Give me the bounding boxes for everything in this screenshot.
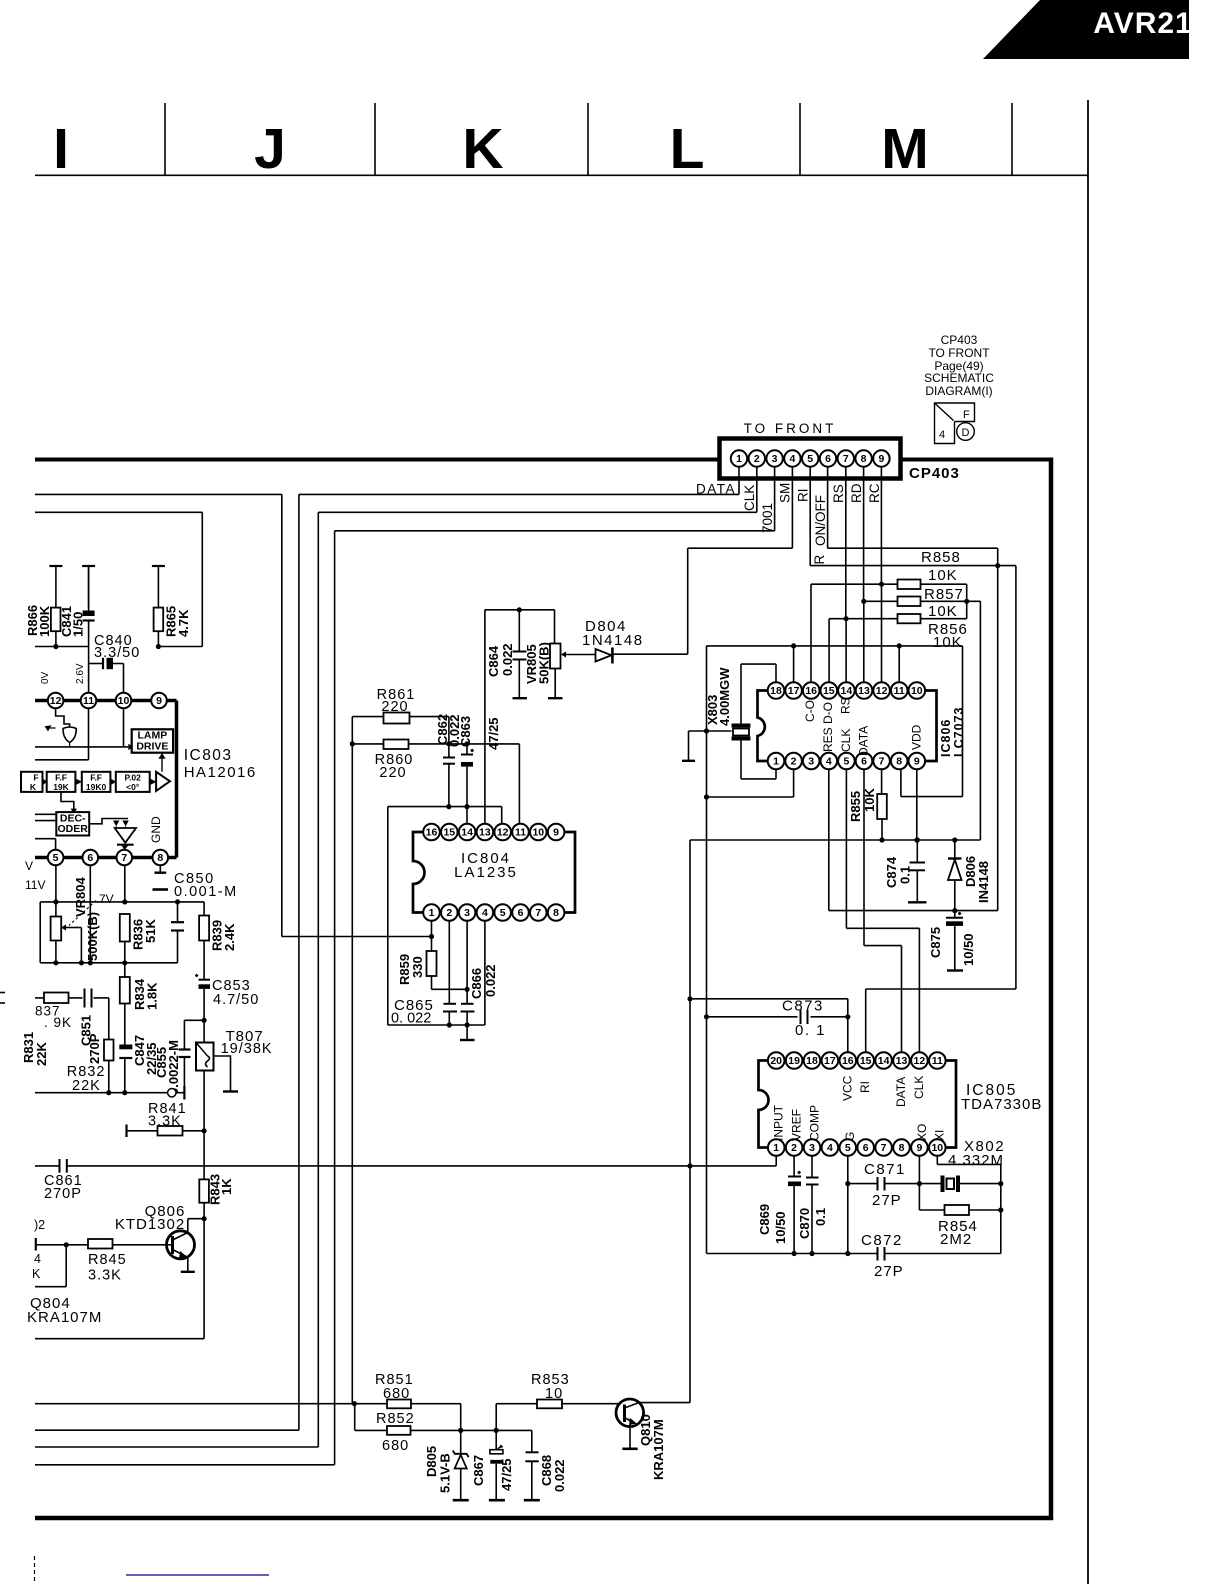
schematic border right edge <box>1049 458 1054 1521</box>
svg-text:10: 10 <box>532 827 544 839</box>
CP403 pin 5 <box>802 450 818 466</box>
wire C855 branch <box>184 1019 204 1021</box>
svg-text:LC7073: LC7073 <box>952 707 966 757</box>
wire VDD bus <box>690 839 980 841</box>
wire G down <box>847 1156 849 1254</box>
wire 7001 from pin 3 <box>774 467 776 531</box>
svg-text:13: 13 <box>896 1055 908 1067</box>
svg-text:C867: C867 <box>471 1455 486 1486</box>
svg-text:20: 20 <box>770 1055 782 1067</box>
svg-text:6: 6 <box>825 453 831 465</box>
bus rail DATA <box>298 494 300 1430</box>
resistor R857 <box>898 597 921 607</box>
IC804 pin 4 <box>477 904 494 921</box>
svg-text:RS: RS <box>839 697 853 714</box>
IC803 pin12 internal link <box>56 708 70 728</box>
capacitor C871 <box>848 1183 877 1185</box>
svg-text:KRA107M: KRA107M <box>651 1419 666 1480</box>
wire RC from pin 9 <box>880 467 882 585</box>
capacitor C874 <box>910 862 926 864</box>
svg-text:CLK: CLK <box>912 1076 926 1099</box>
column tick 2 <box>374 103 376 175</box>
IC804 pin 6 <box>512 904 529 921</box>
resonator X803 <box>732 724 751 728</box>
svg-text:27P: 27P <box>872 1192 902 1209</box>
svg-text:2.6V: 2.6V <box>75 663 86 684</box>
capacitor C870 <box>806 1177 819 1179</box>
svg-text:7V: 7V <box>99 892 114 906</box>
svg-text:C873: C873 <box>782 998 824 1015</box>
svg-text:7: 7 <box>121 852 127 864</box>
svg-text:6: 6 <box>87 852 93 864</box>
svg-text:4.7K: 4.7K <box>176 609 191 637</box>
svg-text:F.F: F.F <box>55 773 67 783</box>
IC803 pin 8 <box>153 850 169 866</box>
wire supply junction line A <box>35 646 89 648</box>
wire IC806 pin6 DATA out <box>863 769 865 945</box>
IC805 pin 17 <box>822 1052 839 1069</box>
IC805 body outline <box>759 1061 957 1148</box>
resistor R853 <box>537 1400 562 1409</box>
block DEC-ODER <box>56 812 89 835</box>
svg-text:C875: C875 <box>928 927 943 958</box>
inter-block arrow 1 <box>43 779 48 785</box>
svg-text:GND: GND <box>149 816 163 843</box>
svg-text:R855: R855 <box>848 791 863 822</box>
transformer T807 <box>203 1020 205 1042</box>
svg-text:XO: XO <box>915 1124 929 1141</box>
svg-text:2: 2 <box>791 1142 797 1154</box>
svg-text:K: K <box>30 782 37 792</box>
IC805 pin 3 <box>804 1139 821 1156</box>
IC803 pin 10 <box>116 693 132 709</box>
IC806 pin 7 <box>873 753 890 770</box>
resistor R836 <box>120 914 130 942</box>
svg-text:1/50: 1/50 <box>71 612 86 637</box>
svg-text:12: 12 <box>497 827 509 839</box>
svg-text:19/38K: 19/38K <box>221 1041 273 1057</box>
svg-text:3.3K: 3.3K <box>148 1114 182 1130</box>
svg-text:330: 330 <box>410 956 425 978</box>
svg-text:220: 220 <box>379 765 406 781</box>
IC806 pin 5 <box>838 753 855 770</box>
IC806 pin 12 <box>873 682 890 699</box>
IC805 pin 4 <box>822 1139 839 1156</box>
block F.F 19K <box>47 772 76 792</box>
svg-text:2: 2 <box>754 453 760 465</box>
svg-text:11: 11 <box>932 1055 943 1067</box>
svg-text:F: F <box>963 409 970 421</box>
diode D806 <box>954 840 956 858</box>
svg-text:22K: 22K <box>72 1078 101 1094</box>
svg-text:IN4148: IN4148 <box>976 861 991 903</box>
column tick 5 <box>1011 103 1013 175</box>
wire left segment A <box>35 493 282 495</box>
IC805 pin 18 <box>804 1052 821 1069</box>
IC806 body outline <box>758 691 937 762</box>
capacitor C864 <box>513 651 527 653</box>
svg-text:14: 14 <box>878 1055 890 1067</box>
svg-text:0.1: 0.1 <box>813 1208 828 1226</box>
svg-text:R857: R857 <box>924 586 964 603</box>
wire crystal right loop <box>962 646 964 797</box>
svg-text:1N4148: 1N4148 <box>582 632 644 649</box>
svg-text:4: 4 <box>826 756 832 768</box>
svg-text:K: K <box>32 1267 41 1281</box>
resistor R856 <box>898 614 921 623</box>
svg-text:SCHEMATIC: SCHEMATIC <box>924 371 994 385</box>
svg-text:11: 11 <box>894 685 905 697</box>
svg-text:CP403: CP403 <box>909 465 960 482</box>
svg-text:10: 10 <box>931 1142 943 1154</box>
svg-text:7001: 7001 <box>760 503 775 533</box>
capacitor C853 <box>199 979 211 981</box>
svg-text:C863: C863 <box>458 716 473 747</box>
svg-text:1: 1 <box>736 453 742 465</box>
IC805 pin 15 <box>857 1052 874 1069</box>
svg-text:12: 12 <box>876 685 888 697</box>
svg-text:6: 6 <box>518 907 524 919</box>
IC806 pin 9 <box>909 753 926 770</box>
IC803 pin 12 <box>48 693 64 709</box>
IC805 pin 8 <box>893 1139 910 1156</box>
svg-text:VR804: VR804 <box>73 876 88 917</box>
CP403 pin 8 <box>855 450 871 466</box>
svg-text:10K: 10K <box>928 567 958 584</box>
svg-text:11: 11 <box>515 827 526 839</box>
wire IC803 pin11 down <box>88 708 90 760</box>
capacitor C865 <box>444 1003 457 1005</box>
IC803 pin 7 <box>117 850 133 866</box>
CP403 pin 7 <box>838 450 854 466</box>
IC806 pin 6 <box>856 753 873 770</box>
block P.02 <box>116 772 150 792</box>
resistor R845 <box>88 1239 113 1249</box>
svg-text:I: I <box>53 117 69 181</box>
column tick 4 <box>799 103 801 175</box>
svg-text:13: 13 <box>858 685 870 697</box>
svg-text:27P: 27P <box>874 1263 904 1280</box>
IC803 pin 9 <box>151 693 167 709</box>
svg-text:5.1V-B: 5.1V-B <box>438 1453 453 1493</box>
capacitor C850 <box>171 921 184 923</box>
svg-text:2M2: 2M2 <box>940 1231 972 1248</box>
T807 secondary ground <box>214 1056 231 1091</box>
rail stub 2 <box>82 565 95 567</box>
IC804 pin 10 <box>530 824 547 841</box>
svg-text:3.3K: 3.3K <box>88 1268 122 1284</box>
svg-text:V: V <box>25 859 33 873</box>
IC805 pin 7 <box>875 1139 892 1156</box>
svg-text:15: 15 <box>443 827 455 839</box>
resistor R851 <box>387 1400 411 1409</box>
svg-text:4: 4 <box>34 1252 41 1266</box>
svg-text:IC803: IC803 <box>184 747 233 764</box>
arrow into LAMP DRIVE <box>161 758 163 772</box>
IC805 pin 1 <box>768 1139 785 1156</box>
svg-text:COMP: COMP <box>807 1105 821 1141</box>
resistor R866 100K <box>51 608 61 632</box>
wire decoder input 2 <box>35 820 56 822</box>
svg-text:680: 680 <box>383 1386 410 1402</box>
svg-text:9: 9 <box>914 756 920 768</box>
wire XTAL filter top <box>485 609 555 611</box>
wire Q806 collector bus <box>35 1338 204 1340</box>
IC805 pin 14 <box>875 1052 892 1069</box>
svg-text:47/25: 47/25 <box>499 1458 514 1491</box>
IC806 pin 13 <box>856 682 873 699</box>
left edge dashed mark <box>34 1556 36 1584</box>
IC803 gate shape <box>63 727 76 743</box>
svg-text:5: 5 <box>500 907 506 919</box>
wire IC803 pin10 down <box>123 708 125 747</box>
IC804 pin 1 <box>423 904 440 921</box>
IC803 pin 11 <box>81 693 97 709</box>
svg-text:CLK: CLK <box>742 485 757 511</box>
IC803 pin 5 <box>48 850 64 866</box>
svg-text:16: 16 <box>426 827 438 839</box>
svg-text:8: 8 <box>157 852 163 864</box>
IC803 amp triangle <box>156 772 170 791</box>
svg-text:9: 9 <box>916 1142 922 1154</box>
schematic border top right segment <box>901 458 1052 462</box>
svg-text:0.1: 0.1 <box>898 866 913 884</box>
IC804 pin 2 <box>441 904 458 921</box>
IC803 body outline <box>35 699 177 703</box>
IC804 body outline <box>413 832 575 913</box>
CP403 pin 6 <box>820 450 836 466</box>
potentiometer VR805 <box>550 644 561 669</box>
svg-text:F: F <box>33 773 38 783</box>
svg-text:INPUT: INPUT <box>772 1104 786 1141</box>
svg-text:6: 6 <box>861 756 867 768</box>
wire XO <box>918 1156 920 1210</box>
svg-text:K: K <box>462 117 503 181</box>
IC806 pin 14 <box>838 682 855 699</box>
svg-text:4: 4 <box>789 453 795 465</box>
capacitor C872 <box>877 1247 879 1261</box>
IC803 diode cluster <box>113 821 119 827</box>
svg-text:7: 7 <box>843 453 849 465</box>
svg-text:4.332M: 4.332M <box>948 1152 1004 1169</box>
svg-text:0. 1: 0. 1 <box>795 1022 826 1039</box>
IC806 pin 2 <box>785 753 802 770</box>
svg-text:KRA107M: KRA107M <box>27 1309 102 1326</box>
wire IC804 pin12 link <box>388 806 502 808</box>
svg-text:9: 9 <box>156 695 162 707</box>
resistor R858 <box>898 580 921 590</box>
CP403 pin 4 <box>784 450 800 466</box>
svg-text:1K: 1K <box>219 1178 234 1195</box>
svg-text:HA12016: HA12016 <box>184 764 257 781</box>
svg-text:100K: 100K <box>37 605 52 637</box>
svg-text:C870: C870 <box>797 1208 812 1239</box>
page header column ruler line <box>35 174 1088 176</box>
resistor R861 <box>384 713 410 724</box>
capacitor C841 <box>83 611 95 617</box>
svg-text:G: G <box>843 1132 857 1141</box>
svg-text:)2: )2 <box>34 1218 45 1232</box>
IC806 pin 15 <box>821 682 838 699</box>
transistor Q810 <box>616 1399 644 1427</box>
zener D805 <box>460 1430 462 1453</box>
svg-text:2: 2 <box>791 756 797 768</box>
svg-text:C866: C866 <box>469 968 484 999</box>
resistor R860 <box>384 740 409 750</box>
IC806 pin 11 <box>891 682 908 699</box>
svg-text:VREF: VREF <box>790 1109 804 1141</box>
svg-text:SM: SM <box>778 483 793 503</box>
svg-text:C872: C872 <box>861 1232 903 1249</box>
svg-text:19: 19 <box>788 1055 800 1067</box>
svg-text:10: 10 <box>911 685 923 697</box>
svg-text:270P: 270P <box>87 1033 102 1064</box>
svg-text:8: 8 <box>861 453 867 465</box>
column tick 1 <box>164 103 166 175</box>
svg-text:4: 4 <box>939 429 945 441</box>
IC805 pin 5 <box>840 1139 857 1156</box>
svg-text:22K: 22K <box>34 1042 49 1066</box>
rail stub 3 <box>152 565 165 567</box>
svg-text:6: 6 <box>863 1142 869 1154</box>
capacitor C868 <box>531 1430 533 1452</box>
svg-text:0.001-M: 0.001-M <box>174 884 238 900</box>
CP403 pin 9 <box>873 450 889 466</box>
IC806 pin 16 <box>803 682 820 699</box>
diode D804 <box>596 649 612 662</box>
svg-text:R858: R858 <box>921 549 961 566</box>
resistor R841 <box>158 1126 183 1136</box>
svg-text:M: M <box>881 117 928 181</box>
svg-text:3: 3 <box>464 907 470 919</box>
bus rail SM-R860 <box>351 717 353 1404</box>
IC806 pin 3 <box>803 753 820 770</box>
svg-text:15: 15 <box>860 1055 872 1067</box>
IC804 pin 8 <box>548 904 565 921</box>
IC806 pin 8 <box>891 753 908 770</box>
wire gate to bus <box>69 743 71 747</box>
wire to IC803 pin 5 <box>35 838 56 840</box>
block F.F 19K0 <box>82 772 111 792</box>
svg-text:2.4K: 2.4K <box>222 923 237 951</box>
IC806 pin 18 <box>768 682 785 699</box>
inter-block arrow 2 <box>76 779 83 785</box>
svg-text:D-O: D-O <box>821 702 835 724</box>
svg-text:R845: R845 <box>88 1252 127 1268</box>
svg-text:14: 14 <box>461 827 473 839</box>
IC803 pin8 decoupling <box>159 865 161 871</box>
svg-text:1: 1 <box>773 1142 779 1154</box>
svg-text:11V: 11V <box>25 878 45 892</box>
svg-text:5: 5 <box>843 756 849 768</box>
capacitor C867 <box>495 1430 497 1449</box>
connector CP403 <box>720 439 901 479</box>
page bottom blue mark <box>126 1574 269 1576</box>
svg-text:8: 8 <box>899 1142 905 1154</box>
wire IC806 pin4 RES <box>828 769 830 910</box>
bus rail 7001 <box>334 531 336 1465</box>
resistor R854 <box>945 1205 970 1215</box>
ground X803 <box>688 731 690 761</box>
capacitor C851 <box>69 997 83 999</box>
AVR21 page banner <box>983 0 1189 59</box>
svg-text:7: 7 <box>881 1142 887 1154</box>
svg-text:DATA: DATA <box>696 481 736 496</box>
wire IC804 bottom bus <box>388 1024 485 1026</box>
svg-text:13: 13 <box>479 827 491 839</box>
svg-text:10K: 10K <box>928 603 958 620</box>
IC804 pin 15 <box>441 824 458 841</box>
test point line <box>35 1092 168 1094</box>
wire DATA from pin 1 <box>738 467 740 495</box>
CP403 pin 2 <box>749 450 765 466</box>
svg-text:4.7/50: 4.7/50 <box>213 992 259 1008</box>
svg-text:8: 8 <box>896 756 902 768</box>
inter-block arrow 3 <box>111 779 117 785</box>
svg-text:10K: 10K <box>862 788 877 812</box>
svg-text:18: 18 <box>770 685 782 697</box>
svg-text:RD: RD <box>849 483 864 503</box>
svg-text:270P: 270P <box>44 1186 82 1202</box>
svg-text:5: 5 <box>53 852 59 864</box>
svg-text:RC: RC <box>867 483 882 503</box>
svg-text:XI: XI <box>933 1130 947 1141</box>
svg-text:R852: R852 <box>376 1411 415 1427</box>
svg-text:DIAGRAM(I): DIAGRAM(I) <box>925 384 992 398</box>
wire IC803 lower bus <box>40 901 204 903</box>
svg-text:7: 7 <box>879 756 885 768</box>
svg-text:VDD: VDD <box>909 724 923 750</box>
wire decoder output <box>89 819 128 824</box>
wire IC804 pin14 up <box>466 807 468 824</box>
svg-text:DATA: DATA <box>894 1077 908 1107</box>
wire INPUT line <box>35 1165 60 1167</box>
IC804 pin 12 <box>494 824 511 841</box>
svg-text:R: R <box>812 555 827 565</box>
svg-text:17: 17 <box>824 1055 836 1067</box>
resistor R855 <box>877 794 887 819</box>
svg-text:9: 9 <box>878 453 884 465</box>
svg-text:8: 8 <box>553 907 559 919</box>
resistor R839 <box>199 916 209 941</box>
transistor Q806 <box>167 1231 195 1259</box>
IC805 pin 11 <box>929 1052 946 1069</box>
resistor R865 <box>154 608 164 632</box>
svg-text:F.F: F.F <box>90 773 102 783</box>
wire XI <box>936 1156 938 1165</box>
svg-text:17: 17 <box>788 685 800 697</box>
svg-text:19K: 19K <box>53 782 69 792</box>
svg-text:500K(B): 500K(B) <box>85 912 100 961</box>
IC805 pin 20 <box>768 1052 785 1069</box>
IC806 pin 10 <box>909 682 926 699</box>
svg-text:10: 10 <box>118 695 130 707</box>
IC804 pin 16 <box>423 824 440 841</box>
potentiometer VR804 <box>51 917 62 941</box>
wire RI link <box>866 988 1016 990</box>
svg-text:RES: RES <box>821 727 835 752</box>
IC804 pin 5 <box>494 904 511 921</box>
wire left segment B <box>35 511 202 513</box>
sheet reference symbol <box>935 403 975 444</box>
svg-text:0.022: 0.022 <box>552 1459 567 1492</box>
capacitor C863 <box>461 754 473 756</box>
wire R845 branch down <box>65 1245 67 1287</box>
IC805 pin 12 <box>911 1052 928 1069</box>
svg-text:10/50: 10/50 <box>961 933 976 966</box>
svg-text:2: 2 <box>446 907 452 919</box>
svg-text:TDA7330B: TDA7330B <box>961 1096 1042 1113</box>
